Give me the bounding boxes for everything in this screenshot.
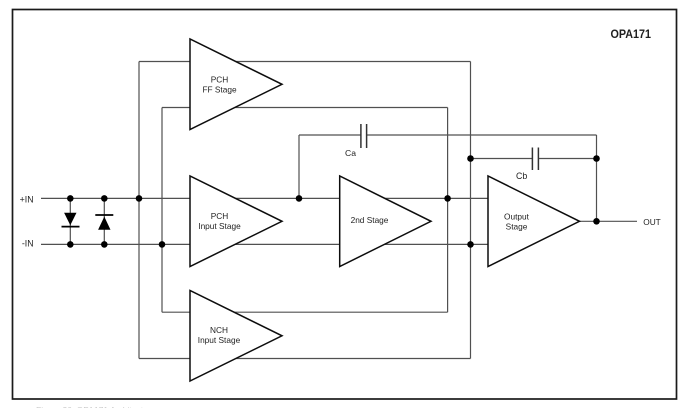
- svg-text:+IN: +IN: [20, 195, 34, 205]
- junction dot at OUT node: [593, 218, 600, 225]
- diode D2 (anode -IN, cathode +IN): [95, 215, 113, 230]
- svg-text:FF Stage: FF Stage: [202, 84, 237, 94]
- wire: outer loop right vertical x=470.5: [470, 62, 472, 359]
- wire: Ca line right segment: [367, 134, 597, 136]
- wire: Cb line left segment: [471, 158, 533, 160]
- wire: vertical diode D1 branch x=70.3: [69, 198, 71, 244]
- wire: +IN horizontal line (y=198.4): [41, 197, 488, 199]
- svg-text:-IN: -IN: [22, 239, 34, 249]
- svg-text:2nd Stage: 2nd Stage: [351, 215, 389, 225]
- wire: outer loop bottom NCH lower input (y=358.5): [139, 358, 471, 360]
- wire: Ca line left segment: [299, 134, 361, 136]
- svg-text:NCH: NCH: [210, 325, 228, 335]
- capacitor Ca plates: [361, 124, 367, 148]
- diode D1 (anode +IN, cathode -IN): [62, 213, 80, 227]
- wire: inner loop -IN net top (y=107.5): [162, 107, 448, 109]
- svg-text:Input Stage: Input Stage: [198, 335, 241, 345]
- op-amp U3 NCH Input Stage triangle: [190, 291, 282, 382]
- junction dots on Cb line: [467, 155, 600, 162]
- wire: Ca left drop vertical x=299: [298, 135, 300, 198]
- op-amp U1 PCH FF Stage triangle: [190, 39, 282, 130]
- wire: inner loop right vertical x=447.6: [447, 108, 449, 313]
- wire: -IN horizontal line (y=244.4): [41, 243, 488, 245]
- wire: Ca/Cb to OUT vertical x=596.5: [596, 135, 598, 221]
- wire: OUT line: [580, 220, 638, 222]
- wire: outer loop +IN net top (y=61.5): [139, 61, 471, 63]
- svg-text:OPA171: OPA171: [611, 27, 652, 41]
- svg-text:Output: Output: [504, 212, 530, 222]
- svg-text:Input Stage: Input Stage: [198, 221, 241, 231]
- op-amp U4 2nd Stage triangle: [340, 176, 431, 267]
- op-amp U5 Output Stage triangle: [488, 176, 580, 267]
- wire: Cb line right segment: [538, 158, 596, 160]
- wire: outer loop left vertical x=139: [138, 62, 140, 359]
- svg-text:PCH: PCH: [211, 211, 229, 221]
- wire: vertical diode D2 branch x=104.3: [103, 198, 105, 244]
- wire: inner loop left vertical x=162: [161, 108, 163, 313]
- svg-text:Stage: Stage: [506, 222, 528, 232]
- junction dots on -IN line: [67, 241, 474, 248]
- svg-text:PCH: PCH: [211, 74, 229, 84]
- capacitor Cb plates: [532, 148, 538, 171]
- svg-text:OUT: OUT: [643, 217, 661, 227]
- wire: inner loop bottom NCH upper input (y=312.2): [162, 311, 448, 313]
- op-amp U2 PCH Input Stage triangle: [190, 176, 282, 267]
- svg-text:Ca: Ca: [345, 148, 356, 158]
- svg-text:Cb: Cb: [516, 171, 527, 181]
- junction dots on +IN line: [67, 195, 451, 202]
